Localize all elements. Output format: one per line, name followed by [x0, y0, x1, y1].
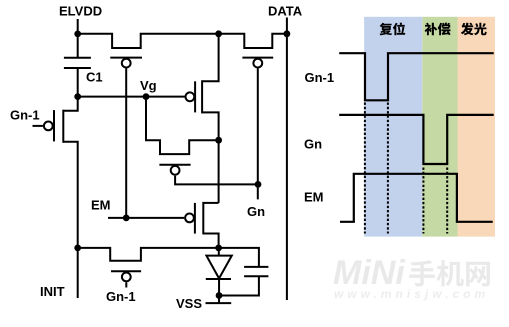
- svg-text:Gn-1: Gn-1: [10, 108, 40, 123]
- svg-text:EM: EM: [304, 190, 324, 205]
- svg-text:ELVDD: ELVDD: [59, 4, 102, 19]
- svg-text:Gn-1: Gn-1: [305, 70, 335, 85]
- svg-text:INIT: INIT: [40, 284, 65, 299]
- svg-text:www.mnisjw.com: www.mnisjw.com: [334, 287, 489, 301]
- svg-text:EM: EM: [91, 198, 111, 213]
- svg-text:VSS: VSS: [176, 296, 202, 311]
- svg-text:C1: C1: [86, 70, 103, 85]
- svg-text:Gn: Gn: [247, 204, 265, 219]
- svg-text:Gn-1: Gn-1: [106, 289, 136, 304]
- svg-text:Vg: Vg: [140, 78, 157, 93]
- svg-text:Gn: Gn: [304, 137, 322, 152]
- svg-text:DATA: DATA: [268, 4, 303, 19]
